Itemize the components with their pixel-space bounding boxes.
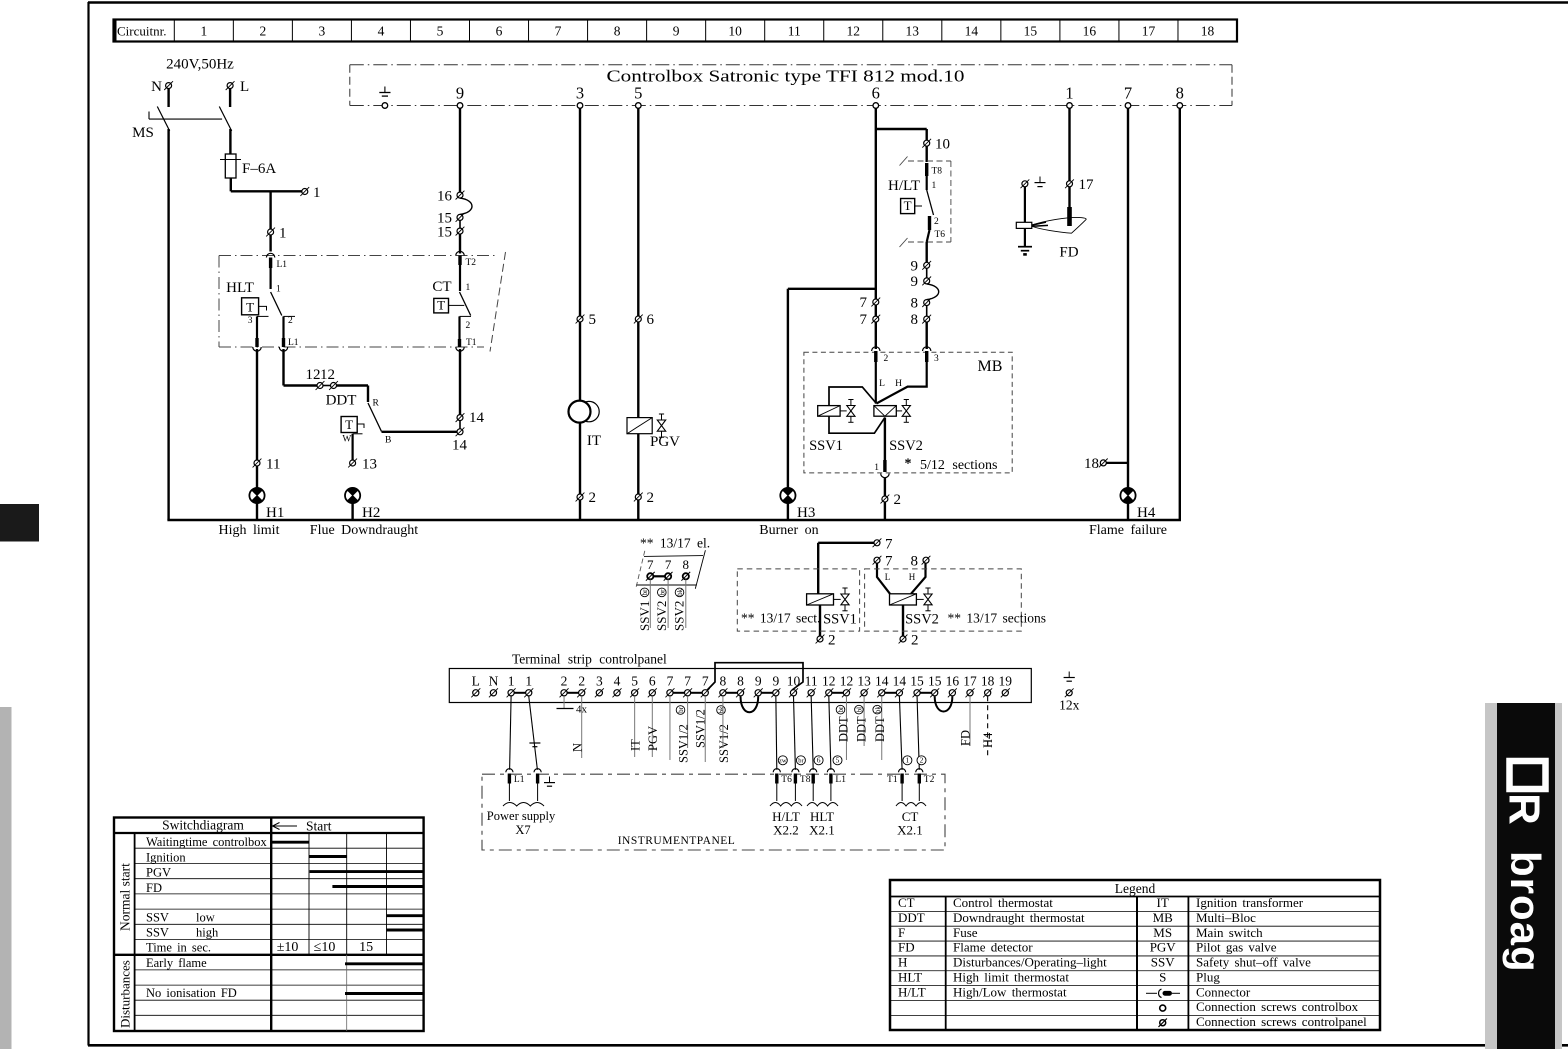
svg-text:*: * <box>905 457 912 472</box>
svg-text:2: 2 <box>911 633 919 649</box>
svg-text:FD: FD <box>146 881 162 895</box>
svg-text:T2: T2 <box>924 775 935 785</box>
svg-text:2: 2 <box>288 316 293 326</box>
svg-text:B: B <box>385 436 391 446</box>
svg-text:9: 9 <box>456 84 464 103</box>
svg-text:8: 8 <box>720 674 727 689</box>
svg-text:Burner on: Burner on <box>759 523 818 538</box>
svg-text:IT: IT <box>629 739 643 751</box>
svg-text:Disturbances: Disturbances <box>118 960 133 1028</box>
svg-text:5: 5 <box>437 24 444 39</box>
svg-text:Early flame: Early flame <box>146 956 207 970</box>
svg-text:13: 13 <box>906 24 920 39</box>
svg-text:CT: CT <box>898 895 915 910</box>
svg-text:PGV: PGV <box>1150 940 1177 955</box>
svg-text:10: 10 <box>728 24 742 39</box>
svg-text:Fuse: Fuse <box>953 925 978 940</box>
svg-text:bk: bk <box>676 588 684 596</box>
svg-text:SSV1: SSV1 <box>823 612 857 628</box>
svg-text:Multi–Bloc: Multi–Bloc <box>1196 910 1256 925</box>
svg-text:2: 2 <box>884 354 889 364</box>
svg-text:1: 1 <box>313 185 321 201</box>
svg-text:br: br <box>658 589 666 596</box>
svg-text:Ignition: Ignition <box>146 850 186 864</box>
svg-text:3: 3 <box>576 84 584 103</box>
svg-text:H1: H1 <box>266 505 284 521</box>
svg-text:15: 15 <box>359 940 373 955</box>
svg-text:X2.1: X2.1 <box>809 823 835 838</box>
svg-text:11: 11 <box>805 674 818 689</box>
svg-text:CT: CT <box>432 279 451 295</box>
svg-text:H: H <box>898 955 907 970</box>
svg-text:SSV2: SSV2 <box>672 601 687 631</box>
svg-text:12: 12 <box>822 674 836 689</box>
svg-text:T8: T8 <box>800 775 811 785</box>
svg-text:IT: IT <box>1157 895 1169 910</box>
svg-text:15: 15 <box>1024 24 1038 39</box>
svg-text:8: 8 <box>683 557 690 572</box>
svg-text:7: 7 <box>1124 84 1132 103</box>
svg-text:zw: zw <box>779 758 787 765</box>
svg-text:HLT: HLT <box>898 969 922 984</box>
svg-text:SSV2: SSV2 <box>654 601 669 631</box>
svg-text:br: br <box>798 758 804 765</box>
svg-text:Circuitnr.: Circuitnr. <box>117 24 166 39</box>
svg-text:X2.2: X2.2 <box>773 823 799 838</box>
svg-text:2: 2 <box>920 756 924 765</box>
svg-text:FD: FD <box>959 730 973 746</box>
svg-text:H: H <box>909 572 916 582</box>
svg-text:7: 7 <box>702 674 709 689</box>
svg-text:High limit thermostat: High limit thermostat <box>953 969 1069 984</box>
svg-text:9: 9 <box>755 674 762 689</box>
svg-text:SSV1: SSV1 <box>809 438 843 454</box>
svg-text:FD: FD <box>898 940 915 955</box>
svg-text:SSV: SSV <box>1151 955 1175 970</box>
svg-text:MB: MB <box>1153 910 1174 925</box>
svg-text:16: 16 <box>437 189 453 205</box>
svg-text:low: low <box>196 911 215 925</box>
svg-text:12x: 12x <box>1059 698 1080 713</box>
svg-text:8: 8 <box>1176 84 1184 103</box>
svg-text:br: br <box>641 589 649 596</box>
svg-text:T1: T1 <box>887 775 898 785</box>
svg-text:5: 5 <box>836 756 840 765</box>
svg-text:F: F <box>898 925 905 940</box>
svg-text:7: 7 <box>667 674 674 689</box>
svg-text:Flue Downdraught: Flue Downdraught <box>310 523 418 538</box>
svg-text:2: 2 <box>466 321 471 331</box>
svg-text:L: L <box>879 379 885 389</box>
svg-text:9: 9 <box>673 24 680 39</box>
svg-text:1: 1 <box>279 226 287 242</box>
svg-text:** 13/17 el.: ** 13/17 el. <box>640 536 710 551</box>
svg-text:No ionisation FD: No ionisation FD <box>146 986 237 1000</box>
svg-text:14: 14 <box>875 674 889 689</box>
svg-text:14: 14 <box>965 24 979 39</box>
svg-text:H/LT: H/LT <box>888 178 920 194</box>
svg-text:** 13/17 sections: ** 13/17 sections <box>948 611 1047 626</box>
svg-text:Flame detector: Flame detector <box>953 940 1033 955</box>
svg-text:7: 7 <box>860 295 868 311</box>
svg-text:12: 12 <box>840 674 854 689</box>
svg-text:1: 1 <box>276 285 281 295</box>
svg-text:8: 8 <box>911 312 919 328</box>
svg-text:PGV: PGV <box>646 726 660 751</box>
svg-text:6: 6 <box>649 674 656 689</box>
svg-text:T2: T2 <box>466 258 477 268</box>
svg-text:5: 5 <box>634 84 642 103</box>
svg-text:4: 4 <box>378 24 385 39</box>
svg-text:8: 8 <box>911 554 919 570</box>
svg-text:18: 18 <box>1201 24 1215 39</box>
svg-text:12: 12 <box>306 367 321 383</box>
svg-text:L: L <box>472 674 480 689</box>
svg-text:** 13/17 sect.: ** 13/17 sect. <box>741 611 820 626</box>
svg-text:F–6A: F–6A <box>242 161 276 177</box>
svg-text:T: T <box>437 297 445 312</box>
svg-text:Pilot gas valve: Pilot gas valve <box>1196 940 1277 955</box>
svg-text:Legend: Legend <box>1115 881 1156 896</box>
svg-text:MS: MS <box>132 125 154 141</box>
svg-text:11: 11 <box>266 457 280 473</box>
svg-text:Waitingtime controlbox: Waitingtime controlbox <box>146 835 268 849</box>
svg-text:High limit: High limit <box>219 523 280 538</box>
svg-text:3: 3 <box>319 24 326 39</box>
svg-text:HLT: HLT <box>226 280 254 296</box>
svg-text:7: 7 <box>885 554 893 570</box>
svg-text:T: T <box>904 198 912 213</box>
svg-text:L1: L1 <box>288 338 299 348</box>
svg-text:IT: IT <box>587 433 601 449</box>
svg-text:Main switch: Main switch <box>1196 925 1263 940</box>
svg-text:bk: bk <box>874 706 882 714</box>
svg-text:S: S <box>1159 969 1166 984</box>
svg-text:2: 2 <box>589 490 597 506</box>
svg-text:±10: ±10 <box>277 940 299 955</box>
svg-text:H4: H4 <box>981 732 995 748</box>
svg-text:T1: T1 <box>466 338 477 348</box>
svg-text:Controlbox Satronic type TFI 8: Controlbox Satronic type TFI 812 mod.10 <box>607 67 965 86</box>
svg-text:2: 2 <box>259 24 266 39</box>
svg-text:Flame failure: Flame failure <box>1089 523 1167 538</box>
svg-text:PGV: PGV <box>650 434 680 450</box>
svg-text:Safety shut–off valve: Safety shut–off valve <box>1196 955 1311 970</box>
svg-text:Switchdiagram: Switchdiagram <box>162 818 244 833</box>
svg-text:L: L <box>885 572 891 582</box>
svg-text:1: 1 <box>874 463 879 473</box>
svg-text:broag: broag <box>1502 851 1549 973</box>
svg-text:T6: T6 <box>935 230 946 240</box>
svg-text:Time in sec.: Time in sec. <box>146 941 211 955</box>
svg-text:19: 19 <box>999 674 1013 689</box>
svg-text:bk: bk <box>718 706 726 714</box>
svg-text:≤10: ≤10 <box>314 940 336 955</box>
svg-text:6: 6 <box>496 24 503 39</box>
svg-text:T8: T8 <box>932 167 943 177</box>
svg-text:DDT: DDT <box>898 910 925 925</box>
svg-text:MS: MS <box>1153 925 1172 940</box>
svg-text:5/12 sections: 5/12 sections <box>920 458 998 473</box>
svg-text:14: 14 <box>469 410 485 426</box>
svg-text:6: 6 <box>647 312 655 328</box>
svg-text:SSV2: SSV2 <box>889 438 923 454</box>
svg-text:1: 1 <box>1065 84 1073 103</box>
svg-text:2: 2 <box>647 490 655 506</box>
svg-text:T6: T6 <box>781 775 792 785</box>
svg-text:15: 15 <box>910 674 924 689</box>
svg-text:Normal start: Normal start <box>118 863 133 931</box>
svg-text:14: 14 <box>893 674 907 689</box>
svg-text:Start: Start <box>306 819 332 834</box>
svg-text:13: 13 <box>362 457 377 473</box>
svg-text:SSV: SSV <box>146 926 169 940</box>
svg-text:2: 2 <box>828 633 836 649</box>
svg-text:13: 13 <box>857 674 871 689</box>
svg-text:INSTRUMENTPANEL: INSTRUMENTPANEL <box>618 835 736 847</box>
svg-text:Connector: Connector <box>1196 984 1251 999</box>
svg-text:DDT: DDT <box>855 716 869 742</box>
svg-text:1: 1 <box>525 674 532 689</box>
svg-text:4: 4 <box>614 674 621 689</box>
svg-text:H: H <box>895 379 902 389</box>
svg-text:PGV: PGV <box>146 866 171 880</box>
svg-text:1: 1 <box>906 756 910 765</box>
svg-text:SSV1/2: SSV1/2 <box>717 724 731 763</box>
svg-text:12: 12 <box>320 367 335 383</box>
svg-text:2: 2 <box>578 674 585 689</box>
svg-text:br: br <box>837 706 845 713</box>
svg-text:SSV1: SSV1 <box>637 601 652 631</box>
svg-text:L1: L1 <box>835 775 846 785</box>
svg-text:2: 2 <box>934 217 939 227</box>
svg-text:SSV1/2: SSV1/2 <box>694 709 708 748</box>
svg-text:1: 1 <box>932 181 937 191</box>
svg-text:7: 7 <box>647 557 654 572</box>
svg-text:7: 7 <box>665 557 672 572</box>
svg-text:18: 18 <box>1084 456 1099 472</box>
svg-text:17: 17 <box>1142 24 1156 39</box>
svg-text:16: 16 <box>1083 24 1097 39</box>
svg-text:14: 14 <box>452 438 468 454</box>
svg-text:Ignition transformer: Ignition transformer <box>1196 895 1304 910</box>
svg-text:8: 8 <box>737 674 744 689</box>
svg-text:W: W <box>342 435 351 445</box>
svg-text:3: 3 <box>248 316 253 326</box>
svg-text:MB: MB <box>978 358 1003 375</box>
svg-text:7: 7 <box>885 536 893 552</box>
svg-text:17: 17 <box>963 674 977 689</box>
svg-text:7: 7 <box>555 24 562 39</box>
svg-text:240V,50Hz: 240V,50Hz <box>166 57 234 73</box>
svg-text:6: 6 <box>872 84 880 103</box>
svg-text:7: 7 <box>684 674 691 689</box>
svg-text:SSV: SSV <box>146 911 169 925</box>
svg-text:T: T <box>246 299 254 314</box>
svg-text:N: N <box>571 743 585 752</box>
svg-text:9: 9 <box>911 259 919 275</box>
svg-text:Plug: Plug <box>1196 969 1220 984</box>
svg-text:16: 16 <box>946 674 960 689</box>
svg-text:High/Low thermostat: High/Low thermostat <box>953 984 1067 999</box>
svg-text:N: N <box>151 79 162 95</box>
svg-text:15: 15 <box>437 225 452 241</box>
svg-text:10: 10 <box>935 137 950 153</box>
svg-text:Power supply: Power supply <box>487 809 556 823</box>
svg-text:1: 1 <box>466 283 471 293</box>
svg-text:1: 1 <box>200 24 207 39</box>
svg-text:X2.1: X2.1 <box>897 823 923 838</box>
svg-text:3: 3 <box>596 674 603 689</box>
svg-text:DDT: DDT <box>873 716 887 742</box>
svg-text:DDT: DDT <box>836 716 850 742</box>
svg-text:H2: H2 <box>362 505 380 521</box>
svg-text:Control thermostat: Control thermostat <box>953 895 1053 910</box>
svg-text:8: 8 <box>614 24 621 39</box>
svg-text:Connection screws controlbox: Connection screws controlbox <box>1196 999 1359 1014</box>
svg-text:DDT: DDT <box>326 393 357 409</box>
svg-text:5: 5 <box>589 312 597 328</box>
svg-text:Terminal strip controlpanel: Terminal strip controlpanel <box>512 652 667 667</box>
svg-text:L1: L1 <box>514 775 525 785</box>
svg-text:SSV1/2: SSV1/2 <box>676 724 690 763</box>
svg-text:1: 1 <box>508 674 515 689</box>
svg-text:11: 11 <box>788 24 801 39</box>
svg-text:Disturbances/Operating–light: Disturbances/Operating–light <box>953 955 1107 970</box>
svg-text:17: 17 <box>1079 177 1095 193</box>
svg-text:bl: bl <box>856 707 864 713</box>
svg-text:L: L <box>240 79 249 95</box>
svg-text:Downdraught thermostat: Downdraught thermostat <box>953 910 1085 925</box>
svg-text:R: R <box>1500 793 1549 825</box>
svg-text:T: T <box>345 417 353 432</box>
svg-text:R: R <box>373 399 380 409</box>
svg-text:3: 3 <box>934 354 939 364</box>
svg-text:15: 15 <box>928 674 942 689</box>
svg-text:X7: X7 <box>515 823 530 837</box>
svg-text:2: 2 <box>561 674 568 689</box>
svg-text:Connection screws controlpanel: Connection screws controlpanel <box>1196 1014 1367 1029</box>
svg-text:6: 6 <box>817 756 821 765</box>
svg-text:FD: FD <box>1059 245 1078 261</box>
svg-text:7: 7 <box>860 312 868 328</box>
svg-text:12: 12 <box>847 24 861 39</box>
svg-text:H4: H4 <box>1137 505 1156 521</box>
svg-text:H3: H3 <box>797 505 815 521</box>
svg-text:9: 9 <box>911 274 919 290</box>
svg-text:9: 9 <box>772 674 779 689</box>
svg-text:8: 8 <box>911 296 919 312</box>
svg-text:high: high <box>196 926 219 940</box>
svg-text:N: N <box>489 674 499 689</box>
svg-text:L1: L1 <box>277 260 288 270</box>
svg-text:br: br <box>677 706 685 713</box>
svg-text:H/LT: H/LT <box>898 984 926 999</box>
svg-text:18: 18 <box>981 674 995 689</box>
svg-text:2: 2 <box>894 492 902 508</box>
svg-text:SSV2: SSV2 <box>905 612 939 628</box>
svg-text:5: 5 <box>631 674 638 689</box>
